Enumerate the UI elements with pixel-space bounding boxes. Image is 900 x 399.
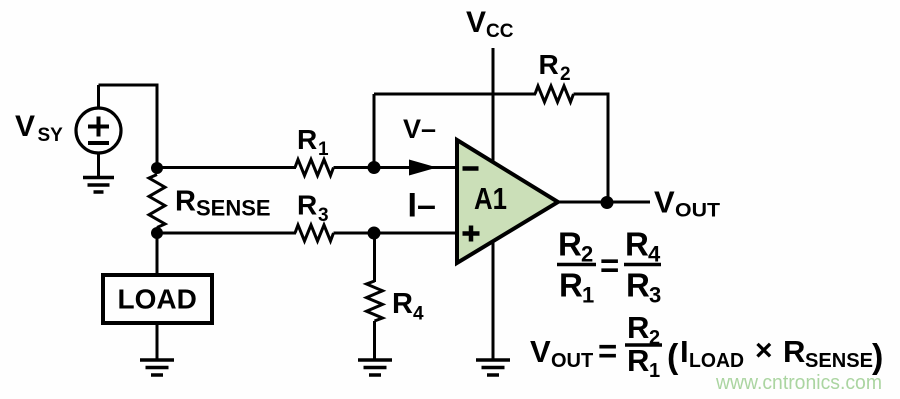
- wire R3 to node D: [334, 232, 375, 235]
- LOAD box: [103, 275, 212, 323]
- svg-text:OUT: OUT: [551, 350, 593, 372]
- svg-text:3: 3: [649, 283, 661, 308]
- svg-text:SENSE: SENSE: [196, 196, 271, 221]
- svg-text:OUT: OUT: [675, 200, 720, 222]
- output wire: [558, 201, 650, 204]
- svg-text:1: 1: [649, 360, 660, 382]
- svg-text:V: V: [530, 334, 551, 369]
- svg-text:R: R: [297, 124, 317, 155]
- svg-text:2: 2: [560, 64, 571, 85]
- svg-text:=: =: [598, 333, 617, 370]
- node A junction dot: [151, 162, 163, 174]
- wire R1 to node C: [334, 166, 375, 169]
- wire node D to op-amp plus input: [374, 232, 457, 235]
- svg-text:R: R: [297, 190, 317, 221]
- op-amp plus pin mark: [463, 226, 480, 242]
- voltage source VSY: [76, 85, 121, 153]
- svg-text:R: R: [558, 226, 582, 263]
- svg-text:V: V: [466, 6, 486, 39]
- svg-text:V: V: [15, 110, 35, 143]
- resistor R3: [295, 225, 334, 241]
- svg-text:×: ×: [755, 334, 773, 367]
- feedback wire to R2: [374, 93, 536, 96]
- svg-text:R: R: [783, 334, 805, 369]
- op-amp minus pin mark: [463, 166, 479, 171]
- svg-text:): ): [872, 338, 883, 376]
- svg-text:R: R: [626, 267, 650, 304]
- op-amp A1: [457, 140, 558, 263]
- svg-text:1: 1: [582, 283, 594, 308]
- svg-text:4: 4: [413, 304, 424, 325]
- svg-text:V: V: [654, 185, 675, 220]
- resistor RSENSE: [149, 175, 165, 228]
- svg-text:R: R: [175, 186, 196, 218]
- ground under VSY: [83, 178, 114, 193]
- svg-text:=: =: [600, 247, 619, 284]
- svg-text:SY: SY: [38, 125, 64, 146]
- resistor R4: [367, 281, 383, 321]
- svg-text:www.cntronics.com: www.cntronics.com: [715, 372, 882, 394]
- wire node C to op-amp minus input: [374, 166, 457, 169]
- wire node B to R3: [157, 232, 296, 235]
- svg-text:LOAD: LOAD: [118, 284, 197, 315]
- svg-text:I–: I–: [408, 187, 436, 225]
- svg-text:SENSE: SENSE: [805, 350, 873, 372]
- svg-text:CC: CC: [486, 21, 514, 42]
- node D junction dot: [368, 227, 381, 240]
- svg-text:R: R: [559, 267, 583, 304]
- current arrow into minus input: [409, 160, 437, 176]
- wire node C up to feedback: [373, 94, 376, 168]
- ground under op-amp: [476, 360, 510, 375]
- svg-text:I: I: [680, 334, 689, 369]
- wire node A to R1: [157, 166, 296, 169]
- svg-text:R: R: [392, 288, 413, 320]
- output node junction dot: [601, 196, 614, 209]
- feedback wire R2 to output: [574, 94, 609, 202]
- svg-text:R: R: [627, 343, 649, 378]
- ground under R4: [358, 360, 392, 375]
- equation R2/R1 = R4/R3: [557, 226, 661, 308]
- equation VOUT = R2/R1 (ILOAD x RSENSE): [530, 310, 883, 382]
- wire R4 to ground: [373, 321, 376, 360]
- ground under LOAD: [140, 360, 174, 375]
- VCC supply wire through op-amp to ground: [492, 48, 495, 360]
- node B junction dot (bottom of RSENSE): [151, 227, 163, 239]
- svg-text:V–: V–: [403, 114, 436, 144]
- wire VSY bottom to ground: [97, 153, 100, 177]
- resistor R2: [535, 86, 574, 102]
- svg-text:LOAD: LOAD: [689, 350, 744, 372]
- svg-text:A1: A1: [474, 181, 507, 216]
- svg-text:R: R: [539, 49, 559, 80]
- svg-text:R: R: [627, 310, 649, 345]
- svg-text:3: 3: [318, 205, 329, 226]
- svg-text:(: (: [667, 338, 679, 376]
- node C junction dot: [368, 161, 381, 174]
- svg-text:1: 1: [318, 139, 329, 160]
- wire LOAD to ground: [156, 323, 159, 360]
- svg-text:R: R: [625, 226, 649, 263]
- wire node B to LOAD: [156, 233, 159, 275]
- wire VSY top to node A: [99, 85, 158, 168]
- wire node D down to R4: [373, 233, 376, 282]
- resistor R1: [295, 160, 334, 176]
